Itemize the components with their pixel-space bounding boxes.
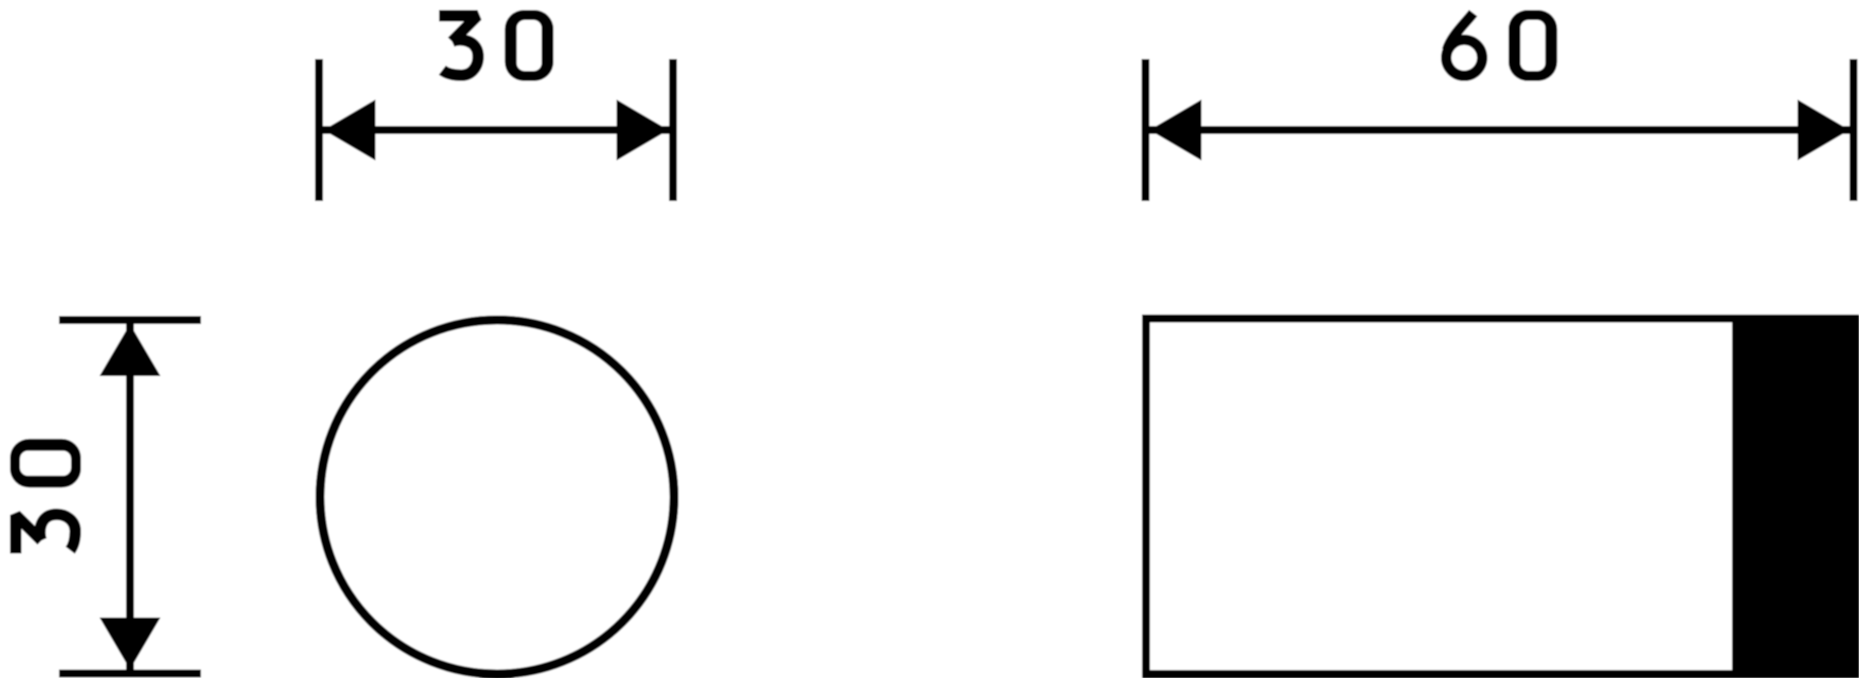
arrowhead right of 30-dim bbox=[617, 100, 669, 161]
black end block of side view bbox=[1732, 315, 1859, 678]
label 30 (top) bbox=[439, 16, 478, 76]
bottom extension tick of vertical 30-dim bbox=[59, 670, 201, 678]
extension tick left of 60-dim bbox=[1142, 59, 1150, 201]
vertical 30-dim shaft bbox=[126, 324, 134, 670]
extension tick right of 30-dim bbox=[669, 59, 677, 201]
extension tick left of 30-dim bbox=[315, 59, 323, 201]
label 60 (top right) bbox=[1446, 13, 1482, 76]
extension tick right of 60-dim bbox=[1850, 59, 1858, 201]
circle (front view, dia 30) bbox=[320, 320, 674, 674]
rectangle (side view, length 60) bbox=[1146, 319, 1854, 675]
30-dim shaft bbox=[323, 126, 669, 134]
arrowhead left of 30-dim bbox=[324, 100, 376, 161]
arrowhead top of vertical 30-dim bbox=[100, 324, 161, 376]
arrowhead left of 60-dim bbox=[1150, 100, 1202, 161]
label 30 (left, rotated) bbox=[10, 439, 81, 554]
arrowhead bottom of vertical 30-dim bbox=[100, 618, 161, 670]
60-dim shaft bbox=[1150, 126, 1850, 134]
top extension tick of vertical 30-dim bbox=[59, 316, 201, 324]
arrowhead right of 60-dim bbox=[1798, 100, 1850, 161]
